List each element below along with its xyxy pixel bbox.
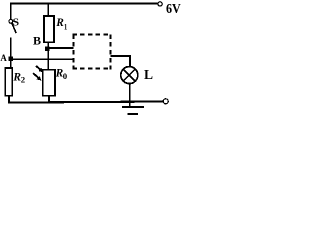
wire left upper vertical (top rail to switch)	[10, 3, 12, 19]
svg-text:S: S	[13, 16, 20, 28]
terminal bottom right	[163, 99, 168, 104]
terminal top right	[158, 2, 162, 6]
svg-text:1: 1	[64, 22, 67, 31]
svg-text:B: B	[33, 34, 41, 48]
ground bar 2	[128, 113, 138, 115]
photoresistor light arrow 1	[36, 66, 41, 70]
switch S contact circle	[9, 19, 13, 23]
ground bar 1	[122, 106, 144, 108]
wire dashed box output to lamp corner	[111, 55, 131, 57]
wire node A down to R2	[10, 59, 12, 68]
wire left lower vertical (switch to node A)	[10, 37, 12, 59]
svg-text:0: 0	[63, 72, 67, 81]
wire R2 bottom lead	[8, 96, 10, 103]
lamp L cross diagonal 2	[123, 69, 135, 81]
wire top rail	[10, 3, 158, 5]
wire lamp bottom lead to ground	[129, 83, 131, 107]
wire node B to dashed box (upper input)	[47, 47, 73, 49]
switch S blade	[12, 23, 16, 33]
resistor R2 body	[5, 68, 12, 96]
resistor R1 body	[44, 16, 54, 42]
wire lamp top lead	[129, 55, 131, 67]
node B junction dot	[45, 47, 49, 51]
wire R1 bottom lead	[47, 42, 49, 47]
svg-text:A: A	[0, 53, 7, 63]
svg-text:R: R	[12, 69, 21, 83]
wire node B down to R0 (crosses node A wire)	[47, 51, 49, 71]
wire R1 top lead	[47, 4, 49, 16]
svg-text:R: R	[55, 15, 64, 29]
wire bottom rail	[8, 102, 163, 103]
dashed box (black box component)	[72, 34, 111, 69]
svg-text:2: 2	[21, 75, 25, 84]
photoresistor light arrow 2	[33, 73, 39, 78]
lamp L cross diagonal 1	[123, 69, 135, 81]
node A junction dot	[9, 57, 13, 61]
resistor R0 body (photoresistor)	[43, 70, 55, 96]
wire R0 bottom lead	[48, 95, 50, 102]
lamp L circle	[121, 67, 138, 84]
svg-text:L: L	[144, 67, 153, 82]
wire node A to dashed box (lower input)	[11, 58, 74, 60]
svg-text:6V: 6V	[166, 2, 181, 17]
